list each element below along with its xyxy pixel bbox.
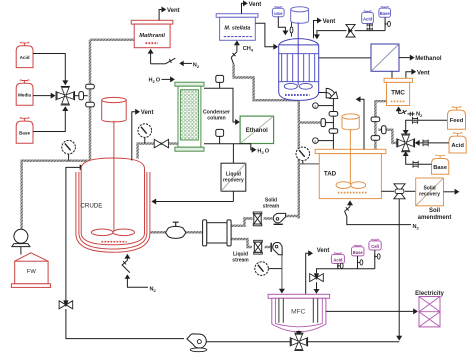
wire gray liquid stream run xyxy=(230,239,252,247)
tank CRUDE body xyxy=(81,158,144,245)
relief valve PRV top manifold xyxy=(346,24,355,30)
wire CRUDE N2 supply xyxy=(127,277,148,287)
svg-text:Feed: Feed xyxy=(450,118,464,124)
wire TMC vent xyxy=(406,72,413,79)
svg-text:Base: Base xyxy=(19,131,30,136)
vessel Base bottle TAD xyxy=(436,155,445,159)
wire MFC bottom drain xyxy=(298,331,300,333)
wire bottom run pump to MFC valve xyxy=(207,341,292,343)
svg-text:NSM: NSM xyxy=(274,12,282,16)
valve V6 condenser line xyxy=(154,139,161,147)
gauge PI TAD inlet xyxy=(302,160,304,164)
wire liquid recovery return to CRUDE xyxy=(156,201,234,203)
wire solid recovery out xyxy=(444,191,456,193)
svg-text:O: O xyxy=(265,148,270,154)
wire M stellata to bioreactor xyxy=(255,23,274,46)
wire Acid bottle to valve xyxy=(33,54,65,82)
wire gray CRUDE condenser line xyxy=(138,144,178,159)
fitting pill TMC line lower xyxy=(371,136,380,141)
gauge PI MFC feed xyxy=(268,268,282,270)
wire membrane permeate xyxy=(399,57,411,59)
wire gray branch to TAD main line xyxy=(299,121,321,123)
pump P3 solid stream xyxy=(273,213,285,224)
wire branch to liquid recovery xyxy=(232,144,234,163)
wire PRV to acid base drops xyxy=(355,30,385,32)
wire liquid stream down to MFC xyxy=(281,252,283,291)
pump P4 liquid stream xyxy=(271,242,282,254)
pump P2 bottom recycle pump xyxy=(190,348,207,352)
svg-text:Vent: Vent xyxy=(167,8,180,14)
sparger dashes CRUDE xyxy=(102,241,127,243)
vessel Base bottle left xyxy=(20,118,29,122)
sensor S1 main line xyxy=(313,103,319,109)
svg-text:O: O xyxy=(156,78,161,84)
vessel Base bottle bioreactor xyxy=(381,6,388,9)
svg-text:H2: H2 xyxy=(149,78,156,84)
impellers bioreactor xyxy=(284,83,297,89)
sparger dashes TAD xyxy=(338,192,367,194)
dashes M stellata xyxy=(224,36,252,38)
coupling bioreactor xyxy=(291,22,293,36)
svg-text:Vent: Vent xyxy=(249,2,262,8)
sparger dashes bioreactor xyxy=(285,94,310,96)
vessel Acid bottle bioreactor xyxy=(364,11,371,14)
wire MFC vent xyxy=(306,253,310,294)
svg-text:TMC: TMC xyxy=(391,90,405,97)
svg-text:Media: Media xyxy=(18,93,31,98)
wire Feed to valve xyxy=(406,120,447,132)
svg-text:Base: Base xyxy=(380,11,391,16)
vessel TAD flange xyxy=(315,149,386,153)
wire Base bottle to valve xyxy=(33,111,65,132)
svg-text:CH4: CH4 xyxy=(243,46,254,52)
pump P1 feed water pump xyxy=(14,229,28,243)
valve V4 four-way bottom xyxy=(294,333,303,341)
fitting pill TMC line upper xyxy=(371,117,380,122)
vessel MFC body xyxy=(272,298,326,332)
fitting base drop tap xyxy=(385,22,388,26)
vessel Feed bottle xyxy=(452,107,461,111)
fitting pill on V1 outlet xyxy=(79,92,84,100)
wire gray CRUDE outlet to decanter xyxy=(150,231,203,233)
svg-text:recovery: recovery xyxy=(419,191,440,197)
wire bioreactor vent xyxy=(314,21,319,39)
wire membrane retentate to TMC xyxy=(391,71,393,78)
wire valve V1 to header xyxy=(75,95,88,97)
internals bioreactor tube bundle xyxy=(279,53,319,55)
svg-text:N2: N2 xyxy=(416,111,423,117)
wire blower to TAD main line xyxy=(332,98,334,149)
box Electricity xyxy=(419,297,440,327)
wire Mathranii vent xyxy=(159,10,162,21)
svg-text:Vent: Vent xyxy=(417,70,430,76)
blower fan bioreactor offgas xyxy=(326,88,336,98)
svg-text:M. stellata: M. stellata xyxy=(224,25,250,31)
valve V1 four-way mixing cross xyxy=(61,87,70,95)
vessel Base bottle MFC xyxy=(354,245,361,248)
vessel Acid bottle left xyxy=(20,42,29,46)
svg-text:FW: FW xyxy=(27,269,37,275)
vessel TMC flange xyxy=(384,78,412,82)
svg-text:MFC: MFC xyxy=(291,309,306,316)
sensor B2 condenser bottom xyxy=(216,129,224,136)
fitting pill header lower xyxy=(86,102,95,107)
svg-text:N2: N2 xyxy=(150,287,157,293)
wire recycle vertical to CRUDE xyxy=(66,167,84,300)
vessel TAD body xyxy=(319,154,381,199)
svg-text:Electricity: Electricity xyxy=(415,291,444,297)
column condenser body xyxy=(175,82,204,86)
svg-text:column: column xyxy=(207,116,225,122)
valve V8 TAD solids outlet xyxy=(381,190,394,192)
vessel Media bottle left xyxy=(20,80,29,84)
svg-text:Mathranii: Mathranii xyxy=(139,33,165,39)
membrane separator box xyxy=(371,44,399,71)
svg-text:Base: Base xyxy=(353,250,364,255)
check switch CRUDE N2 xyxy=(122,260,128,265)
wire gray feed header vertical x90 xyxy=(89,40,91,161)
fitting pill main line lower xyxy=(329,129,338,134)
svg-text:s: s xyxy=(314,138,316,143)
tank M stellata body xyxy=(220,17,256,40)
wire condenser top outlet to ethanol box xyxy=(204,88,236,122)
vessel MFC flange xyxy=(268,294,330,298)
wire valve to solid recovery xyxy=(405,190,416,192)
wire liquid recovery to CRUDE return xyxy=(232,191,234,201)
svg-text:Acid: Acid xyxy=(20,55,30,60)
wire acid drop xyxy=(369,24,371,31)
wire condenser bottom outlet xyxy=(204,144,253,150)
fitting pill main line upper xyxy=(329,112,338,117)
box Ethanol xyxy=(240,116,274,143)
valve V7 globe CRUDE outlet xyxy=(173,222,179,227)
wire TAD recycle riser with arrow xyxy=(359,99,364,149)
sensor B1 condenser top xyxy=(216,75,224,82)
svg-text:Acid: Acid xyxy=(451,143,464,149)
wire Media bottle to valve xyxy=(33,95,51,97)
shaft TAD xyxy=(349,129,351,185)
wire CRUDE vent xyxy=(132,112,136,161)
wire M stellata vent xyxy=(242,3,245,13)
valve V9 solid stream xyxy=(253,212,262,214)
vessel Acid bottle MFC xyxy=(334,253,341,256)
svg-text:Base: Base xyxy=(433,165,448,171)
nitrogen purge TMC xyxy=(398,109,400,114)
wire gray solid stream run xyxy=(230,219,252,226)
shaft bioreactor xyxy=(297,22,299,85)
wire pill to main line xyxy=(325,122,333,124)
motor M TAD agitator xyxy=(342,117,359,130)
box Liquid recovery xyxy=(221,163,246,191)
valve V11 MFC feed xyxy=(310,274,317,282)
wire NSM feed to bioreactor xyxy=(278,17,285,32)
methane line M stellata xyxy=(236,44,238,52)
impeller TAD xyxy=(336,182,351,189)
sensor S2 main line xyxy=(313,138,319,144)
motor M agitator CRUDE xyxy=(102,100,127,122)
wire gray header bottom run to FW xyxy=(22,161,90,230)
wire bioreactor to membrane xyxy=(319,57,371,59)
nitrogen purge TAD xyxy=(349,203,351,207)
svg-text:CRUDE: CRUDE xyxy=(80,202,102,209)
wire gray Mathranii feed xyxy=(90,39,134,41)
wire bottom run MFC valve to riser junction xyxy=(307,341,400,343)
svg-text:stream: stream xyxy=(263,204,280,210)
wire gray bioreactor bottom drain vertical xyxy=(297,98,300,219)
electrode plates MFC xyxy=(278,298,280,323)
svg-text:Acid: Acid xyxy=(333,257,343,262)
svg-text:Cell: Cell xyxy=(371,244,379,249)
svg-text:Vent: Vent xyxy=(317,248,330,254)
dashes TMC xyxy=(391,100,406,102)
wire gray TAD right branch to feed valve xyxy=(378,130,396,143)
vessel Cell bottle MFC xyxy=(371,239,378,242)
wire top manifold into bioreactor xyxy=(317,31,347,36)
tank Mathranii lid xyxy=(131,20,173,24)
wire MFC feed manifold xyxy=(337,264,339,269)
fitting pill header upper xyxy=(86,84,95,89)
heater dashes Mathranii xyxy=(146,42,159,44)
separator decanter drum xyxy=(207,223,227,243)
svg-text:Acid: Acid xyxy=(363,16,373,21)
wire MFC outlet to electricity xyxy=(326,310,414,312)
fitting pill feed branch xyxy=(382,126,386,134)
svg-text:H2: H2 xyxy=(257,148,264,154)
wire solids valve drain to bottom run xyxy=(398,199,400,337)
svg-text:N2: N2 xyxy=(413,224,420,230)
wire Acid to valve xyxy=(418,142,449,144)
svg-text:Vent: Vent xyxy=(323,19,336,25)
wire bioreactor to gas blower xyxy=(319,92,327,94)
tank Mathranii body xyxy=(134,24,170,48)
vessel Acid bottle TAD xyxy=(453,133,462,137)
nitrogen purge CRUDE: arrow into tank bottom xyxy=(126,257,128,260)
nitrogen purge Mathranii xyxy=(150,52,152,64)
wire pump to FW tank xyxy=(20,247,22,255)
wire base drop xyxy=(384,17,386,30)
svg-text:Vent: Vent xyxy=(141,110,154,116)
svg-text:recovery: recovery xyxy=(223,177,244,183)
fitting pill gray branch xyxy=(321,119,325,127)
shaft CRUDE agitator xyxy=(113,121,115,232)
tank M stellata lid xyxy=(216,14,258,18)
wire gray TAD to TMC vertical xyxy=(375,101,386,149)
wire gray CH4 line from M stellata to bioreactor bottom xyxy=(234,64,299,100)
motor M bioreactor agitator xyxy=(291,9,309,23)
tank FW fresh water tank xyxy=(15,253,48,261)
tank bioreactor body xyxy=(279,39,319,101)
svg-text:Soil: Soil xyxy=(429,208,440,214)
gauge PI on header run xyxy=(68,154,70,161)
svg-text:Ethanol: Ethanol xyxy=(246,128,268,134)
wire Base to valve xyxy=(406,154,432,165)
vessel NSM bottle xyxy=(275,6,282,9)
vessel TMC body xyxy=(387,82,410,105)
svg-text:TAD: TAD xyxy=(324,170,337,177)
impeller CRUDE xyxy=(91,229,113,236)
svg-text:Methanol: Methanol xyxy=(415,56,442,62)
valve V2 four-way cross TAD feeds xyxy=(401,134,410,142)
svg-text:s: s xyxy=(314,103,316,108)
svg-text:N2: N2 xyxy=(193,62,200,68)
svg-text:stream: stream xyxy=(232,258,249,264)
valve V5 on recycle riser xyxy=(59,301,66,309)
svg-text:amendment: amendment xyxy=(418,215,452,221)
box Solid recovery xyxy=(416,178,444,206)
wire gray branch into TAD left wall xyxy=(299,163,320,165)
jacket CRUDE outer xyxy=(76,172,150,252)
gauge PI condenser line xyxy=(144,137,146,144)
valve V10 liquid stream xyxy=(254,240,263,242)
